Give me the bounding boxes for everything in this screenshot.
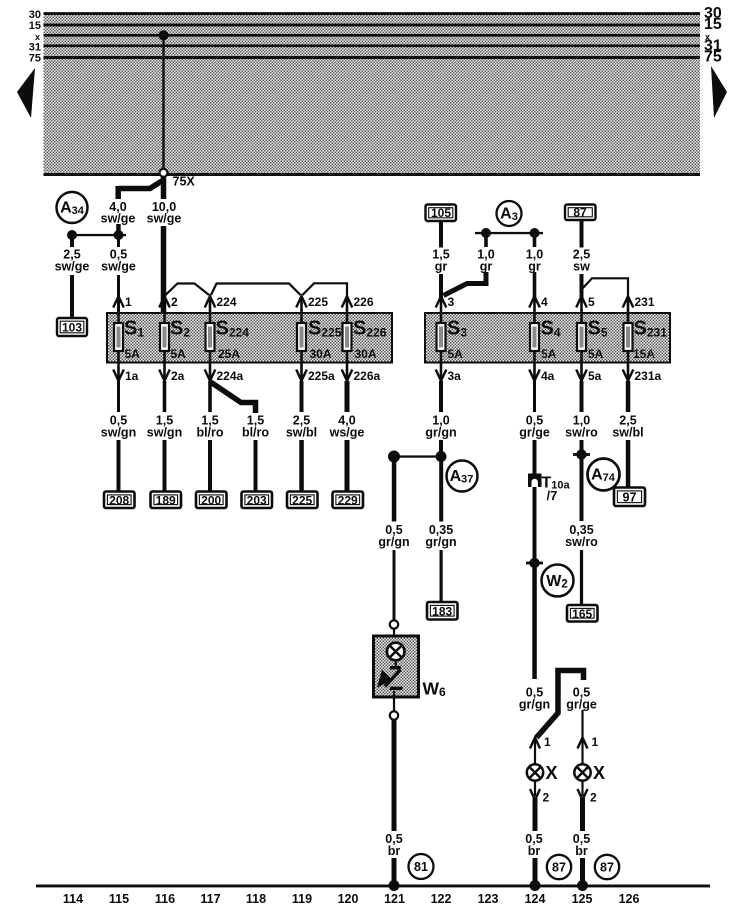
fuse strip right	[425, 313, 670, 363]
svg-text:2: 2	[543, 791, 550, 805]
junction dot gr/gn	[436, 451, 447, 462]
svg-text:231a: 231a	[635, 369, 662, 383]
svg-text:bl/ro: bl/ro	[242, 426, 269, 440]
svg-text:15A: 15A	[633, 347, 655, 361]
component label A3	[497, 201, 522, 226]
wire thin to box 183	[440, 550, 443, 602]
wire 1,5 bl/ro to 203	[254, 440, 258, 492]
wire into W6	[393, 628, 395, 646]
pin arrow 4a	[529, 370, 540, 381]
wire 1,0 gr/gn upper	[439, 381, 443, 412]
terminal box 105	[426, 205, 457, 222]
wire 2,5 sw/bl upper (231a)	[626, 381, 631, 412]
svg-text:sw: sw	[573, 260, 590, 274]
svg-text:225: 225	[292, 494, 312, 508]
svg-text:203: 203	[247, 494, 267, 508]
lamp left pin 2 arrow	[534, 781, 536, 796]
svg-text:225a: 225a	[308, 369, 335, 383]
svg-text:sw/gn: sw/gn	[147, 426, 182, 440]
lamp X right	[574, 763, 605, 783]
svg-text:117: 117	[200, 892, 220, 906]
wire 1,5 bl/ro upper	[208, 381, 212, 412]
svg-text:2: 2	[590, 791, 597, 805]
wire 1,0 gr jog to pin 3	[444, 272, 487, 296]
ground node left lamp	[530, 880, 541, 891]
fuse strip left	[107, 313, 392, 363]
svg-text:X: X	[546, 763, 558, 783]
svg-text:226: 226	[354, 295, 374, 309]
svg-text:4: 4	[541, 295, 548, 309]
wire 1,0 gr to pin 4	[533, 272, 537, 298]
fuse S3	[437, 318, 468, 362]
wire 0,35 gr/gn down	[439, 457, 443, 522]
fuse S4	[530, 318, 561, 362]
terminal box 97	[614, 488, 645, 507]
svg-text:189: 189	[156, 494, 176, 508]
svg-text:224: 224	[217, 295, 237, 309]
svg-text:81: 81	[414, 860, 428, 874]
wire 1,5 sw/gn upper	[163, 381, 167, 412]
svg-text:200: 200	[201, 494, 221, 508]
svg-text:123: 123	[478, 892, 499, 906]
component label A74	[588, 459, 620, 491]
wire 0,5 br right lamp	[580, 798, 585, 831]
component label A37	[447, 461, 478, 492]
pin arrow 3	[436, 296, 447, 307]
wire 1,5 gr to pin 3	[439, 274, 443, 298]
svg-text:122: 122	[431, 892, 452, 906]
svg-text:sw/ge: sw/ge	[101, 260, 136, 274]
svg-text:75: 75	[29, 53, 41, 65]
wire to right lamp	[581, 710, 583, 764]
svg-text:5A: 5A	[171, 347, 187, 361]
wire 2,5 sw/bl to 225	[299, 440, 304, 492]
pin arrow 224a	[205, 370, 216, 381]
svg-text:2a: 2a	[171, 369, 185, 383]
svg-text:75: 75	[704, 49, 722, 66]
ground label 87 (left)	[547, 855, 571, 879]
wire 2,5 sw from 87	[580, 220, 584, 248]
svg-text:sw/ro: sw/ro	[565, 426, 598, 440]
bus bar 30	[44, 12, 701, 15]
svg-text:3a: 3a	[448, 369, 462, 383]
fuse S225	[297, 318, 342, 362]
svg-text:sw/bl: sw/bl	[612, 426, 643, 440]
pin arrow 1a	[113, 370, 124, 381]
svg-text:87: 87	[600, 861, 614, 875]
wire to left lamp	[534, 739, 536, 764]
node on bus x	[159, 30, 169, 40]
wire 0,5 br to ground rail	[392, 858, 397, 885]
svg-text:gr: gr	[528, 260, 541, 274]
wire stub 0,5 below dot	[117, 235, 120, 247]
wire 1,5 bl/ro to 200	[208, 440, 212, 492]
wire 0,5 gr/gn branch down	[392, 457, 397, 522]
svg-text:sw/ge: sw/ge	[147, 212, 182, 226]
svg-text:208: 208	[109, 494, 129, 508]
lamp left pin 1 arrow	[530, 738, 540, 749]
svg-text:119: 119	[292, 892, 312, 906]
pin arrow 225	[296, 296, 307, 307]
fuse S2	[160, 318, 190, 362]
wire 0,5 br from W6	[392, 719, 397, 831]
svg-text:sw/gn: sw/gn	[101, 426, 136, 440]
ground label 81	[409, 854, 434, 879]
pin arrow 226a	[342, 370, 353, 381]
pin arrow 231	[623, 296, 634, 307]
wire 1,0 sw/ro upper	[580, 381, 584, 412]
junction dot gr right	[530, 228, 540, 238]
wire thin to box 165	[580, 550, 583, 605]
wire 0,5 sw/gn to 208	[117, 440, 121, 492]
wire from bus x down to 75X	[162, 35, 164, 169]
wire 0,5 br left lamp	[533, 798, 538, 831]
wire 10.0 sw/ge main drop	[161, 177, 167, 313]
svg-text:5A: 5A	[541, 347, 557, 361]
pin arrow 4	[529, 296, 540, 307]
wire 0,5 to fuse S1	[117, 275, 120, 313]
terminal box 87	[565, 205, 596, 221]
svg-text:229: 229	[338, 494, 358, 508]
svg-text:gr: gr	[435, 260, 448, 274]
svg-text:gr/ge: gr/ge	[566, 698, 597, 712]
wire stub 2,5 below dot	[70, 235, 74, 247]
W6 bottom terminal (open circle)	[390, 711, 398, 719]
fuse S226	[343, 318, 387, 362]
pin arrow 1	[113, 296, 124, 307]
wire 1,0/0,35 sw/ro	[580, 440, 584, 521]
wire 1,0 gr/gn into junction	[439, 440, 443, 457]
junction W2 (dot with bar)	[526, 562, 543, 565]
svg-text:ws/ge: ws/ge	[329, 426, 365, 440]
svg-text:gr: gr	[480, 260, 493, 274]
wire 1,5 gr from 105	[439, 221, 443, 248]
pin arrow 224	[205, 296, 216, 307]
pin arrow 231a	[623, 370, 634, 381]
junction dot W6 branch	[388, 451, 400, 463]
arrow right (continuation)	[711, 66, 727, 118]
lamp X left	[527, 763, 558, 783]
svg-text:15: 15	[29, 20, 41, 32]
svg-text:75X: 75X	[173, 175, 196, 189]
svg-text:gr/gn: gr/gn	[425, 426, 456, 440]
wire 1,5 sw/gn to 189	[163, 440, 167, 492]
svg-text:87: 87	[552, 861, 566, 875]
wire 0,5 gr/ge down from W2 junction	[532, 563, 537, 679]
svg-text:231: 231	[635, 295, 655, 309]
ground label 87 (right)	[595, 855, 619, 879]
bus bar 31	[44, 45, 701, 48]
wire 0,5 gr/ge to W2 junction	[533, 487, 537, 563]
svg-text:gr/ge: gr/ge	[519, 426, 550, 440]
svg-text:sw/ro: sw/ro	[565, 535, 598, 549]
wire thin to W6 top	[393, 550, 396, 621]
terminal box 200	[196, 492, 227, 509]
component label A34	[57, 192, 88, 223]
lamp right pin 1 arrow	[578, 738, 588, 749]
svg-text:5A: 5A	[588, 347, 604, 361]
pin arrow 225a	[296, 370, 307, 381]
svg-text:97: 97	[623, 491, 637, 505]
W6 top terminal (open circle)	[390, 620, 398, 628]
svg-text:br: br	[575, 844, 588, 858]
svg-text:1: 1	[544, 735, 551, 749]
junction dot gr left	[481, 228, 491, 238]
svg-text:X: X	[593, 763, 605, 783]
svg-text:bl/ro: bl/ro	[196, 426, 223, 440]
wire 0,5 gr/ge upper	[533, 381, 536, 412]
wire to rail right lamp	[580, 858, 585, 885]
svg-text:5a: 5a	[588, 369, 602, 383]
component label W2	[542, 565, 574, 597]
wire 2,5 sw/bl to 97	[626, 440, 631, 488]
svg-text:118: 118	[246, 892, 266, 906]
pin arrow 226	[342, 296, 353, 307]
terminal box 103	[57, 318, 87, 336]
svg-text:br: br	[388, 844, 401, 858]
bus bar 75	[44, 56, 701, 59]
svg-text:4a: 4a	[541, 369, 555, 383]
svg-text:gr/gn: gr/gn	[519, 698, 550, 712]
svg-text:124: 124	[525, 892, 546, 906]
arrow left (continuation)	[17, 68, 35, 118]
svg-text:1: 1	[592, 735, 599, 749]
pin arrow 3a	[436, 370, 447, 381]
terminal box 165	[567, 605, 598, 622]
svg-text:116: 116	[155, 892, 175, 906]
svg-text:87: 87	[573, 206, 587, 220]
svg-text:120: 120	[338, 892, 359, 906]
branch wire to right lamp (pi shape)	[537, 671, 584, 738]
svg-text:5A: 5A	[125, 347, 141, 361]
fuse S231	[624, 318, 668, 362]
svg-text:5: 5	[588, 295, 595, 309]
junction bar A37	[394, 455, 441, 457]
svg-text:gr/gn: gr/gn	[425, 535, 456, 549]
bridge wire S225 to S226	[303, 283, 348, 296]
svg-text:3: 3	[448, 295, 455, 309]
junction dot left	[67, 230, 77, 240]
junction bar A34	[70, 234, 126, 236]
bridge wire S224 to S225	[211, 284, 301, 296]
pin arrow 2	[159, 296, 170, 307]
svg-text:15: 15	[704, 16, 722, 33]
terminal box 229	[333, 492, 364, 509]
svg-text:115: 115	[109, 892, 129, 906]
bus band (stippled)	[44, 12, 701, 176]
wire 2,5 sw to pin 5	[580, 274, 584, 298]
wire 4.0 sw/ge branch elbow	[118, 179, 165, 199]
wire stub 1,0 gr right	[533, 233, 537, 247]
wire stub 1,0 gr left	[484, 233, 488, 247]
ground node W6	[389, 880, 400, 891]
terminal box 189	[151, 492, 182, 509]
wire to rail left lamp	[533, 858, 538, 885]
branch wire to fuse 231	[582, 278, 628, 296]
lamp right pin 2 arrow	[581, 781, 583, 796]
bus bar 15	[44, 24, 701, 27]
svg-text:226a: 226a	[354, 369, 381, 383]
svg-text:165: 165	[572, 607, 592, 621]
svg-text:1: 1	[125, 295, 132, 309]
svg-text:25A: 25A	[218, 347, 240, 361]
branch jog 224a to 203	[211, 382, 256, 413]
wire 4,0 ws/ge to 229	[345, 440, 350, 492]
svg-text:sw/ge: sw/ge	[55, 260, 90, 274]
fuse S224	[206, 318, 250, 362]
wire 4,0 ws/ge upper	[345, 381, 350, 412]
ground rail	[36, 885, 710, 888]
wire 0,5 gr/ge to T10a	[533, 440, 537, 476]
svg-text:183: 183	[432, 605, 452, 619]
svg-text:30A: 30A	[310, 347, 332, 361]
bus bar x	[44, 34, 701, 37]
terminal 75X node	[160, 169, 168, 177]
svg-text:sw/ge: sw/ge	[101, 212, 136, 226]
svg-text:114: 114	[63, 892, 83, 906]
pin arrow 5	[576, 296, 587, 307]
svg-text:gr/gn: gr/gn	[378, 535, 409, 549]
svg-text:126: 126	[619, 892, 640, 906]
svg-text:103: 103	[62, 321, 82, 335]
terminal box 225	[287, 492, 318, 509]
pin arrow 2a	[159, 370, 170, 381]
svg-text:1a: 1a	[125, 369, 139, 383]
terminal box 208	[104, 492, 135, 509]
svg-text:224a: 224a	[217, 369, 244, 383]
bridge wire S2 to S224	[166, 284, 210, 296]
wire 2,5 to terminal 103	[70, 275, 74, 318]
svg-text:30A: 30A	[355, 347, 377, 361]
junction dot right	[114, 230, 124, 240]
junction bar A3	[475, 232, 543, 234]
connector T10a/7	[528, 474, 571, 504]
fuse S1	[114, 318, 144, 362]
wire 0,5 sw/gn upper	[117, 381, 120, 412]
bus band bottom edge	[44, 173, 701, 176]
fuse S5	[577, 318, 608, 362]
pin arrow 5a	[576, 370, 587, 381]
svg-text:121: 121	[384, 892, 405, 906]
svg-text:/7: /7	[547, 488, 558, 503]
svg-text:125: 125	[572, 892, 593, 906]
svg-text:225: 225	[308, 295, 328, 309]
svg-text:5A: 5A	[448, 347, 464, 361]
svg-text:x: x	[35, 32, 40, 42]
svg-text:2: 2	[171, 295, 178, 309]
lamp W6 (glove box light with switch)	[374, 636, 419, 697]
ground node right lamp	[577, 880, 588, 891]
svg-text:br: br	[528, 844, 541, 858]
terminal box 203	[242, 492, 273, 509]
wire below W6	[393, 691, 395, 712]
wire 2,5 sw/bl upper	[300, 381, 304, 412]
junction sw/ro (dot with bar)	[573, 453, 590, 456]
terminal box 183	[427, 602, 458, 620]
svg-text:sw/bl: sw/bl	[286, 426, 317, 440]
svg-text:105: 105	[431, 206, 451, 220]
wire 4.0 drop to junction	[116, 224, 121, 235]
